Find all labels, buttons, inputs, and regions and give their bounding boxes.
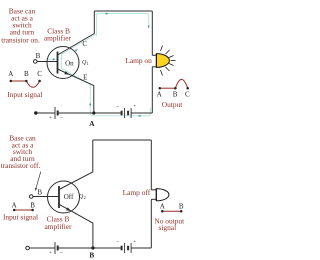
terminal: base input (open circle) <box>29 195 33 199</box>
transistor Q1 circle <box>47 47 79 79</box>
input waveform labels A B C <box>8 70 42 78</box>
svg-text:+: + <box>133 239 136 245</box>
svg-text:+: + <box>49 115 52 121</box>
battery 1-cell (base bias) <box>55 107 58 119</box>
svg-text:B: B <box>30 202 35 210</box>
label: Class B amplifier (bottom) <box>44 215 72 231</box>
wire: right rail upper <box>150 140 152 190</box>
svg-text:+: + <box>49 250 52 256</box>
transistor Q1 emitter lead <box>58 69 94 113</box>
transistor Q1 base bar <box>57 52 59 74</box>
leader arrow to base terminal <box>36 172 41 190</box>
svg-text:−: − <box>60 115 63 121</box>
svg-text:2: 2 <box>84 195 86 200</box>
svg-text:Input signal: Input signal <box>7 90 42 99</box>
wire: base lead <box>37 61 58 63</box>
svg-text:transistor on.: transistor on. <box>1 35 40 44</box>
svg-text:−: − <box>116 239 119 245</box>
current arrow (top wire, right) <box>106 12 109 14</box>
wire: bottom rail right <box>131 247 151 249</box>
wire: bottom rail right <box>131 112 152 114</box>
current arrow (emitter riser, up) <box>89 103 91 106</box>
wire: top current highlight (teal loop, collector to lamp) <box>61 14 148 69</box>
wire: bottom rail left <box>58 112 94 114</box>
svg-text:B: B <box>24 70 29 78</box>
caption: Base can act as a switch and turn transistor on. <box>1 7 40 45</box>
transistor Q2 emitter lead <box>59 204 93 248</box>
svg-text:B: B <box>179 202 184 210</box>
transistor Q1 collector lead <box>58 11 95 55</box>
wire: right rail lower <box>150 199 152 248</box>
svg-text:A: A <box>8 70 13 78</box>
wire: bottom rail mid <box>93 247 122 249</box>
svg-text:signal: signal <box>158 223 176 232</box>
svg-text:On: On <box>65 59 74 67</box>
input waveform labels A B <box>12 202 36 210</box>
svg-text:Lamp off: Lamp off <box>123 188 151 197</box>
svg-text:A: A <box>12 202 17 210</box>
input waveform (flat then dip) <box>11 80 26 82</box>
wire: base lead <box>33 196 59 198</box>
svg-text:+: + <box>133 104 136 110</box>
svg-text:transistor off.: transistor off. <box>1 161 41 170</box>
transistor Q2 base bar <box>58 186 60 208</box>
current arrow (bottom wire, left) <box>138 115 141 117</box>
svg-text:A: A <box>157 91 162 99</box>
label: No output signal <box>154 217 185 233</box>
svg-text:A: A <box>89 120 95 128</box>
svg-text:B: B <box>36 52 41 60</box>
label: Class B amplifier (top) <box>44 27 72 43</box>
transistor Q2 collector lead <box>59 140 93 190</box>
transistor Q2 circle <box>48 181 80 213</box>
svg-text:B: B <box>89 251 94 259</box>
node: emitter junction <box>91 246 94 249</box>
lamp (on): envelope <box>156 54 169 68</box>
svg-text:amplifier: amplifier <box>44 33 72 42</box>
battery 2-cell (collector supply) <box>122 108 132 118</box>
svg-text:1: 1 <box>87 61 89 66</box>
battery 1-cell (base bias) <box>55 242 58 254</box>
output waveform (flat) <box>162 210 181 212</box>
terminal: left (open circle) <box>26 246 30 250</box>
svg-text:Off: Off <box>64 193 74 201</box>
svg-text:B: B <box>173 91 178 99</box>
terminal: base input (open circle) <box>34 60 38 64</box>
transistor Q2 emitter arrow <box>66 207 71 211</box>
svg-text:C: C <box>82 40 87 48</box>
input waveform (flat) <box>14 209 32 211</box>
wire: lamp stubs <box>152 54 156 56</box>
svg-text:C: C <box>37 70 42 78</box>
svg-text:−: − <box>60 250 63 256</box>
wire: lamp stubs <box>151 189 156 191</box>
svg-text:Input signal: Input signal <box>3 213 38 222</box>
wire: top rail <box>94 10 152 12</box>
wire: right rail lower <box>151 67 153 113</box>
wire: to left terminal <box>29 247 55 249</box>
svg-text:−: − <box>116 104 119 110</box>
wire: to left terminal <box>36 112 55 114</box>
battery 2-cell (collector supply) <box>122 243 132 253</box>
terminal: left (dot) <box>34 111 37 114</box>
wire: right rail upper (to lamp) <box>151 11 153 55</box>
svg-text:Output: Output <box>162 100 183 109</box>
node: emitter junction <box>92 111 95 114</box>
svg-text:E: E <box>83 74 87 82</box>
output waveform labels A B C <box>157 91 190 99</box>
caption: Base can act as a switch and turn transistor off. <box>1 133 41 170</box>
output waveform (flat then hump) <box>160 87 176 89</box>
wire: teal emitter/bottom return highlight <box>61 68 150 116</box>
wire: bottom rail left <box>58 247 93 249</box>
svg-text:Lamp on: Lamp on <box>125 56 152 65</box>
current arrow (base, right) <box>47 58 55 60</box>
svg-text:A: A <box>160 202 165 210</box>
wire: bottom rail mid <box>94 112 122 114</box>
wire: top rail <box>93 139 152 141</box>
current arrow (collector, up-right) <box>75 49 78 52</box>
lamp rays <box>161 46 176 76</box>
svg-text:amplifier: amplifier <box>44 222 72 231</box>
svg-text:B: B <box>37 189 42 197</box>
lamp (off): envelope <box>156 189 169 201</box>
svg-text:C: C <box>185 91 190 99</box>
output waveform labels A B <box>160 202 184 210</box>
transistor Q1 emitter arrow <box>64 71 69 74</box>
current arrow (right side, down) <box>148 26 150 29</box>
